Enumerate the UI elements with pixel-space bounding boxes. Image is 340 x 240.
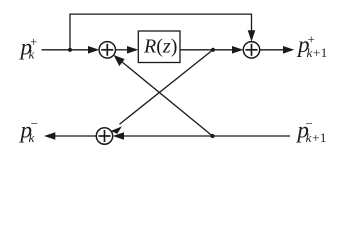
- node B junction dot after R(z): [211, 48, 215, 52]
- svg-text:R(z): R(z): [143, 36, 177, 58]
- svg-text:−: −: [306, 116, 313, 131]
- wire diagonal from node C up-left to adder S1: [122, 62, 212, 136]
- arrowhead into adder S3 from right: [113, 132, 124, 140]
- svg-text:−: −: [31, 116, 38, 131]
- adder S1: [99, 42, 115, 58]
- wire feedforward top: riser, top run, drop: [70, 14, 252, 50]
- wire diagonal from node B down-left to adder S3: [120, 50, 214, 124]
- wire input pk+ to adder S1: [42, 49, 90, 51]
- adder S2: [243, 42, 259, 58]
- arrowhead diagonal into adder S3: [111, 126, 122, 133]
- wire adder S2 output to pk+1+: [260, 49, 284, 51]
- wire R(z) box to adder S2: [180, 49, 234, 51]
- wire adder S3 output to pk-: [54, 135, 96, 137]
- svg-text:k+1: k+1: [307, 45, 328, 60]
- arrowhead into adder S2 from left: [232, 46, 243, 54]
- svg-text:+: +: [308, 32, 315, 47]
- wire adder S1 to R(z) box: [116, 49, 129, 51]
- wire bottom run pk+1- to adder S3: [124, 135, 290, 137]
- arrowhead into adder S2 from top: [248, 30, 256, 41]
- node A junction dot after pk+: [68, 48, 72, 52]
- arrowhead output pk- pointing left: [44, 132, 55, 140]
- adder S3: [96, 128, 112, 144]
- svg-text:+: +: [30, 34, 37, 49]
- arrowhead into adder S1 from left: [88, 46, 99, 54]
- arrowhead diagonal into adder S1: [114, 55, 125, 66]
- svg-text:k: k: [29, 130, 35, 145]
- svg-text:k+1: k+1: [306, 130, 327, 145]
- node C junction dot on bottom run: [210, 134, 214, 138]
- block R(z): [138, 31, 180, 63]
- arrowhead output pk+1+: [283, 46, 294, 54]
- arrowhead into R(z) box: [127, 46, 138, 54]
